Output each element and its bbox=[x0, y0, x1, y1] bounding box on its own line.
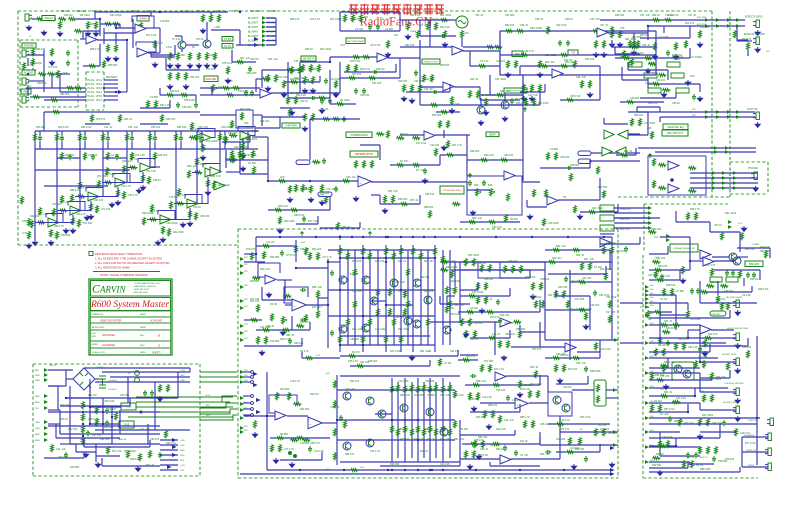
resistor bbox=[404, 425, 407, 433]
wire bbox=[649, 387, 728, 389]
resistor bbox=[107, 152, 110, 160]
resistor bbox=[362, 247, 365, 255]
resistor R27 bbox=[222, 87, 230, 90]
resistor R99 bbox=[322, 118, 330, 121]
input sub-box bottom bbox=[20, 106, 78, 108]
wire bottom rail 2 bbox=[240, 473, 612, 475]
supply stub bbox=[368, 232, 371, 236]
op-amp bbox=[260, 89, 271, 98]
svg-text:R31 470: R31 470 bbox=[94, 199, 104, 202]
ground bbox=[617, 42, 622, 47]
connector arrow bbox=[645, 430, 649, 434]
wire bbox=[266, 44, 276, 46]
svg-text:C77 4.7K: C77 4.7K bbox=[284, 448, 294, 451]
capacitor bbox=[328, 98, 332, 104]
capacitor bbox=[66, 50, 70, 56]
svg-text:R84 470: R84 470 bbox=[290, 18, 300, 21]
buffer A2 bbox=[618, 130, 628, 139]
svg-text:C35 .047: C35 .047 bbox=[294, 60, 304, 63]
wire bbox=[95, 381, 190, 383]
capacitor bbox=[143, 390, 147, 396]
svg-text:C63 10K: C63 10K bbox=[560, 156, 570, 159]
ground bbox=[200, 28, 205, 33]
svg-text:C58 33K: C58 33K bbox=[368, 360, 378, 363]
svg-text:R82 15K: R82 15K bbox=[505, 24, 515, 27]
svg-text:R57 100pF: R57 100pF bbox=[124, 450, 136, 453]
resistor bbox=[104, 181, 112, 184]
svg-text:R22 2.2K: R22 2.2K bbox=[496, 428, 506, 431]
arrow bbox=[610, 446, 615, 450]
svg-text:HI FREQ SEND: HI FREQ SEND bbox=[722, 354, 737, 356]
wire bbox=[160, 449, 178, 451]
wire bbox=[699, 403, 701, 410]
resistor bbox=[411, 428, 414, 436]
node bbox=[417, 419, 419, 421]
connector arrow bbox=[240, 271, 244, 275]
wire supply rail bbox=[136, 401, 230, 403]
wire bbox=[711, 329, 734, 331]
wire EQ stage link bbox=[65, 201, 91, 211]
resistor R117 bbox=[721, 232, 724, 240]
wire bbox=[461, 38, 463, 47]
capacitor bbox=[696, 288, 700, 294]
resistor R61 bbox=[423, 74, 426, 82]
connector arrow bbox=[645, 293, 649, 297]
node bbox=[111, 416, 113, 418]
svg-text:R23 .01: R23 .01 bbox=[530, 366, 539, 369]
svg-text:TR: TR bbox=[563, 196, 566, 199]
resistor R31 bbox=[310, 64, 313, 72]
wire bbox=[147, 219, 155, 221]
svg-text:R8 .0022: R8 .0022 bbox=[80, 14, 90, 17]
svg-text:C72 15K: C72 15K bbox=[101, 208, 111, 211]
resistor bbox=[79, 181, 82, 189]
wire bbox=[154, 131, 156, 135]
svg-text:R32 15K: R32 15K bbox=[500, 314, 510, 317]
svg-text:+: + bbox=[669, 189, 671, 193]
svg-text:-: - bbox=[601, 238, 602, 242]
resistor bbox=[529, 390, 532, 398]
wire bbox=[148, 52, 160, 54]
svg-text:C17 4.7K: C17 4.7K bbox=[322, 256, 332, 259]
capacitor EQ bbox=[179, 135, 183, 141]
wire top rail bbox=[102, 371, 190, 373]
ground bbox=[449, 108, 454, 113]
capacitor EQ bbox=[200, 135, 204, 141]
ground bbox=[105, 56, 110, 61]
connector arrow bbox=[44, 394, 48, 398]
supply stub bbox=[523, 108, 526, 112]
wire bbox=[489, 75, 491, 95]
svg-text:C68 .01: C68 .01 bbox=[266, 325, 275, 328]
wire bbox=[122, 91, 127, 93]
resistor bbox=[480, 159, 488, 162]
op-amp bbox=[200, 133, 211, 142]
title block row bbox=[91, 330, 171, 341]
power supply box left bbox=[32, 364, 34, 476]
ground bbox=[167, 63, 172, 68]
resistor bbox=[407, 22, 410, 30]
ground bbox=[735, 310, 740, 315]
wire bbox=[480, 402, 515, 404]
resistor bbox=[477, 392, 480, 400]
svg-text:+40V: +40V bbox=[205, 415, 211, 417]
resistor bbox=[552, 249, 560, 252]
resistor bbox=[159, 384, 162, 392]
wire bbox=[419, 195, 421, 204]
connector arrow bbox=[645, 341, 649, 345]
svg-text:+: + bbox=[425, 136, 427, 140]
connector arrow bbox=[727, 115, 731, 119]
wire bbox=[560, 99, 600, 101]
wire bbox=[57, 386, 59, 410]
resistor R121 bbox=[82, 413, 85, 421]
resistor R73 bbox=[648, 63, 656, 66]
jack bbox=[765, 448, 771, 456]
wire bbox=[195, 95, 197, 102]
svg-text:C55 100K: C55 100K bbox=[104, 400, 115, 403]
svg-text:ORG: ORG bbox=[35, 428, 40, 430]
svg-text:R66 .1uF: R66 .1uF bbox=[187, 165, 197, 168]
svg-text:SAN DIEGO CA 92111: SAN DIEGO CA 92111 bbox=[134, 285, 157, 288]
resistor R6 bbox=[87, 21, 95, 29]
wire effects send bbox=[600, 19, 745, 21]
resistor bbox=[178, 188, 181, 196]
wire bbox=[689, 237, 691, 261]
svg-text:C90 .01: C90 .01 bbox=[480, 448, 489, 451]
connector arrow bbox=[613, 443, 617, 447]
svg-text:-: - bbox=[141, 163, 142, 167]
svg-text:BLU/WHT: BLU/WHT bbox=[248, 41, 259, 43]
svg-text:+40V: +40V bbox=[180, 370, 186, 372]
resistor EQ band 4 bbox=[102, 133, 105, 141]
connector arrow bbox=[613, 430, 617, 434]
svg-text:LAYER: LAYER bbox=[92, 343, 99, 346]
wire EQ stage link bbox=[182, 177, 208, 204]
svg-text:R72 470: R72 470 bbox=[560, 428, 570, 431]
svg-text:R10 .047: R10 .047 bbox=[312, 306, 322, 309]
resistor bbox=[566, 99, 574, 102]
wire stub bbox=[243, 395, 251, 397]
svg-text:VALIDATED: VALIDATED bbox=[102, 334, 115, 337]
wire bbox=[340, 344, 435, 346]
svg-text:+: + bbox=[566, 348, 568, 352]
open pin bbox=[251, 376, 254, 379]
ground bbox=[382, 208, 387, 213]
wire2 bbox=[600, 243, 640, 245]
resistor bbox=[672, 324, 680, 327]
labelbox AMP bbox=[21, 89, 31, 94]
wire bbox=[95, 444, 97, 462]
op-amp bbox=[597, 28, 608, 37]
resistor R150 bbox=[302, 439, 310, 442]
wire2 bbox=[737, 247, 770, 249]
ground bbox=[601, 52, 606, 57]
wire bbox=[375, 413, 392, 415]
jack bbox=[751, 172, 757, 180]
wire bbox=[330, 56, 377, 58]
wire bbox=[61, 142, 63, 150]
wire bbox=[688, 329, 700, 331]
svg-text:R88 100K: R88 100K bbox=[700, 468, 711, 471]
connector arrow bbox=[240, 402, 244, 406]
jack bbox=[733, 406, 739, 414]
wire bbox=[700, 391, 736, 393]
sub box bbox=[478, 262, 500, 278]
wire2 bbox=[470, 411, 520, 413]
resistor R125 bbox=[96, 418, 99, 426]
resistor bbox=[368, 77, 376, 80]
wire bbox=[371, 181, 467, 183]
svg-text:C87 1K: C87 1K bbox=[714, 224, 722, 227]
wire bbox=[739, 232, 741, 252]
svg-text:C32 220: C32 220 bbox=[556, 438, 566, 441]
wire bbox=[70, 443, 160, 445]
connector arrow bbox=[733, 186, 737, 190]
svg-text:GENE GEO PETER: GENE GEO PETER bbox=[100, 320, 122, 323]
resistor EQ band 6 bbox=[149, 133, 152, 141]
ground bbox=[135, 466, 140, 471]
svg-text:R95 47uF: R95 47uF bbox=[294, 214, 305, 217]
svg-text:PLAG: PLAG bbox=[88, 78, 95, 82]
node bbox=[327, 304, 329, 306]
capacitor C25 bbox=[676, 88, 689, 93]
ground bbox=[85, 31, 90, 36]
phones box right bbox=[767, 162, 769, 194]
power amp box bottom bbox=[238, 477, 618, 479]
wire bbox=[275, 18, 277, 45]
wire supply rail bbox=[136, 406, 233, 408]
svg-text:C51 2.2K: C51 2.2K bbox=[38, 213, 48, 216]
resistor R74 bbox=[658, 74, 666, 77]
wire2 bbox=[296, 267, 328, 269]
wire bbox=[102, 398, 104, 434]
wire EQ stage link bbox=[83, 187, 118, 197]
svg-text:R59 .1uF: R59 .1uF bbox=[440, 394, 450, 397]
svg-text:C67 .01: C67 .01 bbox=[600, 24, 609, 27]
svg-text:R51 3.3K: R51 3.3K bbox=[388, 190, 398, 193]
wire bbox=[101, 458, 103, 466]
wire bbox=[419, 58, 421, 105]
resistor bbox=[630, 46, 638, 49]
svg-text:C9 15K: C9 15K bbox=[248, 162, 256, 165]
rail bbox=[449, 382, 451, 458]
node bbox=[82, 411, 84, 413]
wire bbox=[380, 203, 420, 205]
resistor EQ band 7 bbox=[175, 133, 178, 141]
labelbox PRE AMP bbox=[745, 261, 763, 267]
capacitor bbox=[498, 318, 502, 324]
jack bbox=[733, 358, 739, 366]
op-amp bbox=[205, 168, 216, 177]
svg-text:+: + bbox=[87, 40, 89, 44]
wire bbox=[48, 423, 60, 425]
ground bbox=[697, 434, 702, 439]
arrow bbox=[172, 453, 177, 457]
svg-text:4B POWER AMP: 4B POWER AMP bbox=[347, 40, 364, 43]
resistor R28 bbox=[232, 87, 240, 90]
svg-text:VIB DEPTH: VIB DEPTH bbox=[302, 59, 314, 61]
capacitor C33 bbox=[482, 180, 486, 186]
wire bbox=[266, 40, 276, 42]
resistor bbox=[609, 300, 612, 308]
wire bbox=[104, 95, 118, 97]
svg-text:R72 56K: R72 56K bbox=[83, 222, 93, 225]
wire bbox=[467, 189, 490, 191]
resistor bbox=[61, 152, 64, 160]
wire bbox=[479, 87, 481, 100]
resistor bbox=[603, 246, 606, 254]
node bbox=[126, 39, 128, 41]
connector bbox=[594, 380, 606, 406]
connector arrow bbox=[240, 370, 244, 374]
op-amp bbox=[275, 411, 286, 420]
resistor bbox=[123, 191, 126, 199]
wire bbox=[675, 211, 677, 222]
title block CARVIN cell bbox=[91, 281, 171, 297]
wire in bbox=[244, 261, 265, 263]
wire bbox=[247, 142, 249, 150]
wire bbox=[717, 281, 719, 295]
svg-text:BEEP: BEEP bbox=[489, 133, 496, 136]
filter cap C40 bbox=[99, 376, 106, 388]
wire bbox=[132, 19, 134, 48]
EQ bus top bbox=[35, 130, 258, 132]
svg-text:R75 47uF: R75 47uF bbox=[222, 62, 233, 65]
wire bbox=[327, 259, 329, 348]
svg-text:4.7K: 4.7K bbox=[157, 41, 163, 45]
resistor bbox=[611, 246, 614, 254]
wire bbox=[147, 424, 149, 444]
arrow bbox=[256, 398, 261, 402]
supply stub bbox=[648, 154, 651, 158]
svg-text:C20 1M: C20 1M bbox=[563, 386, 571, 389]
svg-text:LIM: LIM bbox=[648, 319, 652, 321]
resistor bbox=[687, 212, 690, 220]
resistor bbox=[499, 415, 502, 423]
svg-text:TREM: TREM bbox=[410, 31, 416, 33]
labelbox LAMP/PHOTOCELL bbox=[504, 88, 527, 93]
resistor bbox=[417, 385, 420, 393]
node bbox=[255, 253, 257, 255]
rail bbox=[347, 250, 349, 345]
rail bbox=[393, 250, 395, 345]
ground bbox=[57, 31, 62, 36]
wire bbox=[480, 98, 482, 106]
svg-text:TO FS: TO FS bbox=[224, 45, 231, 48]
resistor bbox=[334, 428, 337, 436]
pot vib bbox=[304, 76, 307, 84]
svg-text:R88 470: R88 470 bbox=[488, 404, 498, 407]
ground bbox=[741, 226, 746, 231]
wire bbox=[699, 373, 701, 392]
wire bbox=[236, 44, 262, 46]
ground bbox=[476, 454, 481, 459]
svg-text:C57 .1uF: C57 .1uF bbox=[640, 14, 650, 17]
svg-text:C25 15K: C25 15K bbox=[590, 304, 600, 307]
ground bbox=[537, 72, 542, 77]
input sub-box top bbox=[20, 39, 78, 41]
resistor bbox=[481, 264, 484, 272]
svg-text:C97 33K: C97 33K bbox=[92, 434, 102, 437]
resistor bbox=[485, 98, 488, 106]
svg-text:C81 22K: C81 22K bbox=[372, 82, 382, 85]
supply stub bbox=[300, 232, 303, 236]
wire bbox=[160, 459, 178, 461]
EQ drop bbox=[196, 149, 198, 203]
svg-text:LIMITER: LIMITER bbox=[711, 314, 720, 316]
svg-text:R20 22K: R20 22K bbox=[700, 26, 710, 29]
svg-text:-: - bbox=[266, 275, 267, 279]
wire bbox=[481, 94, 505, 96]
svg-text:TR: TR bbox=[571, 51, 575, 55]
svg-text:R92 68K: R92 68K bbox=[270, 256, 280, 259]
wire bbox=[687, 462, 689, 468]
connector arrow bbox=[736, 18, 740, 22]
svg-text:C64 33K: C64 33K bbox=[425, 380, 435, 383]
wire bbox=[446, 296, 448, 305]
wire bbox=[499, 51, 501, 75]
svg-text:R41 1M: R41 1M bbox=[88, 394, 96, 397]
wire bbox=[454, 86, 480, 88]
node bbox=[699, 361, 701, 363]
wire bbox=[210, 12, 212, 14]
svg-text:+15V: +15V bbox=[205, 395, 211, 397]
svg-text:33K: 33K bbox=[363, 15, 368, 19]
EQ bus bottom bbox=[35, 148, 258, 150]
ground bbox=[753, 186, 758, 191]
svg-text:GND: GND bbox=[180, 450, 185, 452]
connector arrow bbox=[240, 257, 244, 261]
svg-text:-40V: -40V bbox=[180, 375, 185, 377]
wire bbox=[102, 182, 110, 184]
wire bbox=[84, 446, 150, 448]
svg-text:C87 68K: C87 68K bbox=[505, 14, 515, 17]
resistor R110 bbox=[651, 131, 654, 139]
resistor bbox=[504, 265, 507, 273]
svg-text:R50 10K: R50 10K bbox=[658, 265, 668, 268]
wire bbox=[59, 74, 61, 92]
ground bbox=[70, 228, 75, 233]
resistor R59 bbox=[574, 60, 577, 68]
svg-text:C38 100pF: C38 100pF bbox=[166, 222, 178, 225]
wire bbox=[480, 99, 520, 101]
open pin bbox=[251, 408, 254, 411]
ground bbox=[735, 398, 740, 403]
wire bbox=[322, 422, 337, 424]
resistor bbox=[317, 252, 320, 260]
svg-text:C25 4.7K: C25 4.7K bbox=[128, 194, 138, 197]
wire bbox=[55, 73, 70, 75]
node bbox=[102, 411, 104, 413]
resistor R122 bbox=[82, 425, 85, 433]
svg-text:C99 4.7K: C99 4.7K bbox=[310, 442, 320, 445]
input jack bbox=[22, 50, 29, 57]
transistor bbox=[501, 101, 509, 109]
resistor bbox=[578, 309, 586, 312]
svg-text:R38 1K: R38 1K bbox=[565, 18, 573, 21]
capacitor bbox=[503, 445, 507, 451]
svg-text:C2 .01: C2 .01 bbox=[660, 298, 668, 301]
svg-text:R49 1M: R49 1M bbox=[470, 338, 478, 341]
wire bbox=[340, 77, 400, 79]
svg-text:R46 47uF: R46 47uF bbox=[580, 416, 591, 419]
svg-text:C19 15K: C19 15K bbox=[570, 447, 580, 450]
channel connector box right bbox=[103, 72, 105, 110]
resistor bbox=[435, 428, 438, 436]
ground bbox=[157, 396, 162, 401]
wire bbox=[649, 357, 718, 359]
